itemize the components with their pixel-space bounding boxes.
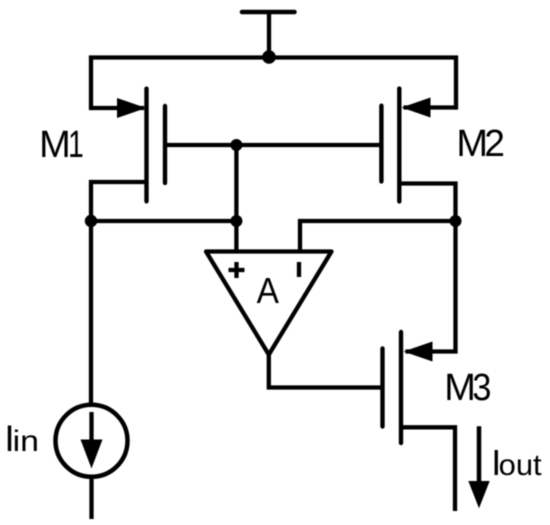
M2 source arrowhead: [402, 98, 431, 118]
svg-text:3: 3: [472, 365, 491, 408]
svg-text:out: out: [499, 449, 543, 481]
node wire left drain to gate junction: [91, 219, 236, 223]
M1 source arrow wire: [91, 106, 144, 110]
M1 drain wire: [91, 182, 147, 221]
transistor M2 gate bar: [379, 106, 383, 182]
supply symbol stem wire: [267, 12, 271, 58]
M3 drain wire: [401, 427, 455, 511]
op-amp minus input wire: [300, 221, 456, 252]
Iout arrow shaft: [477, 426, 482, 484]
gate wire M1 to M2: [165, 143, 381, 147]
transistor M3 channel bar: [399, 332, 403, 443]
op-amp output wire to M3 gate: [269, 355, 383, 388]
wire node to current source: [89, 221, 93, 403]
op-amp minus tick: [297, 262, 301, 277]
transistor M2 channel bar: [397, 89, 401, 202]
junction dot middle node: [230, 215, 242, 227]
svg-text:M: M: [39, 124, 71, 166]
gate junction vertical wire to op-amp + input: [234, 145, 238, 252]
junction dot at supply: [262, 50, 276, 64]
supply symbol bar: [242, 10, 295, 15]
wire below current source: [89, 479, 93, 519]
label Iout: [491, 442, 542, 483]
op-amp U1 triangle: [206, 252, 332, 355]
label M3: [444, 365, 491, 409]
M3 source arrowhead: [404, 342, 433, 362]
svg-text:1: 1: [68, 124, 84, 166]
svg-text:A: A: [257, 272, 280, 311]
transistor M3 gate bar: [380, 349, 384, 427]
svg-text:M: M: [444, 367, 476, 409]
svg-text:2: 2: [484, 122, 505, 164]
label M2: [456, 122, 505, 165]
top rail wire: [91, 58, 456, 109]
label Iin: [4, 418, 39, 459]
junction dot gate net: [230, 139, 242, 151]
junction dot right drain node: [450, 215, 462, 227]
M2 source arrow wire: [404, 105, 457, 109]
svg-text:in: in: [13, 424, 39, 457]
M1 source arrowhead: [117, 98, 146, 118]
transistor M1 gate bar: [163, 106, 167, 183]
current source Iin arrow shaft: [89, 412, 93, 446]
op-amp plus sign: [229, 262, 245, 278]
junction dot left drain node: [85, 215, 97, 227]
Iout arrowhead: [468, 481, 489, 508]
current source Iin arrowhead: [81, 440, 103, 469]
label M1: [39, 124, 84, 166]
transistor M1 channel bar: [144, 89, 148, 202]
M2 drain wire down to M3 source: [399, 184, 455, 352]
current source Iin circle: [56, 405, 128, 477]
